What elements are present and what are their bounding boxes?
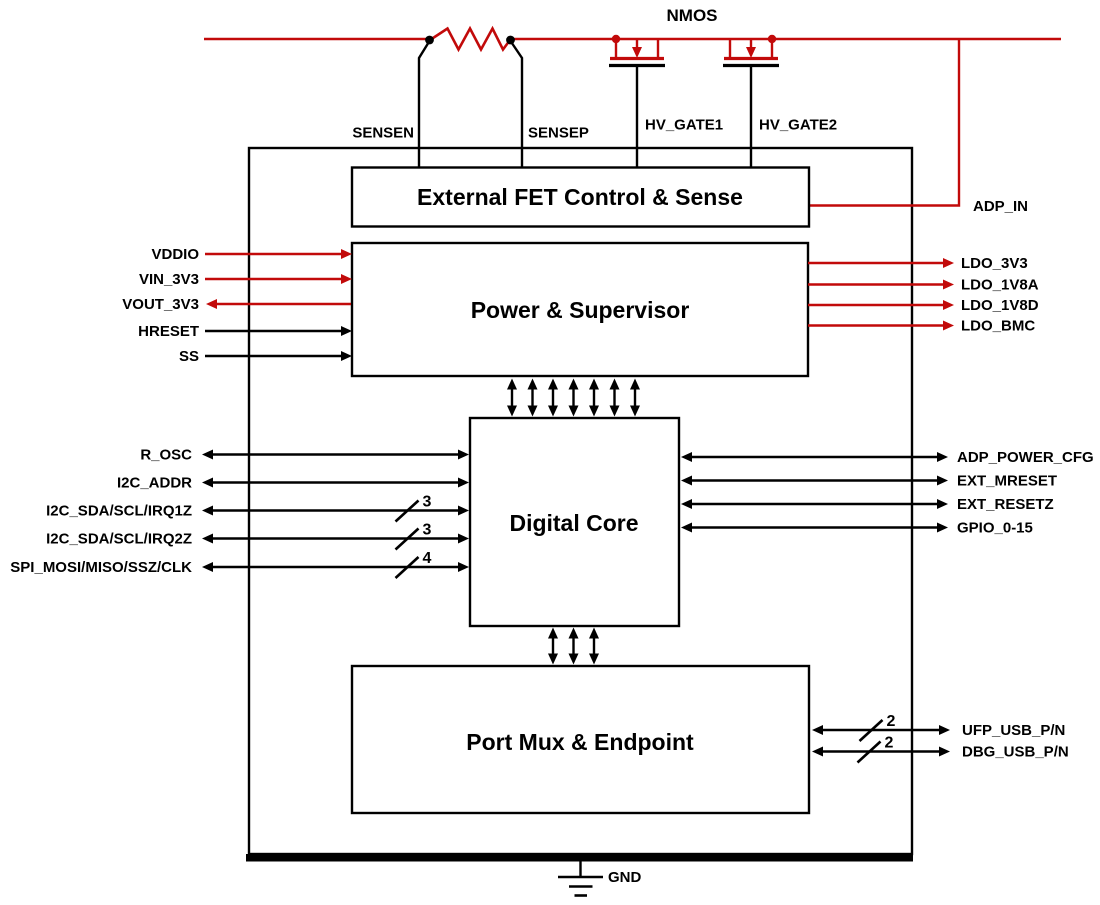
pin I2C_ADDR arrow <box>202 478 469 488</box>
svg-text:3: 3 <box>423 494 432 511</box>
bus arrow 2: Power & Supervisor ↔ Digital Core <box>528 379 538 417</box>
svg-text:LDO_1V8D: LDO_1V8D <box>961 297 1039 314</box>
svg-text:Power & Supervisor: Power & Supervisor <box>471 297 690 323</box>
pin LDO_3V3 arrow <box>808 258 954 268</box>
svg-text:LDO_1V8A: LDO_1V8A <box>961 277 1039 294</box>
bus width slash "3" on pin I2C_SDA/SCL/IRQ2Z arrow <box>396 522 432 550</box>
bus arrow 4: Power & Supervisor ↔ Digital Core <box>569 379 579 417</box>
pin HRESET arrow <box>205 326 352 336</box>
svg-text:SENSEN: SENSEN <box>352 125 414 142</box>
svg-text:HV_GATE1: HV_GATE1 <box>645 117 723 134</box>
bus arrow 7: Power & Supervisor ↔ Digital Core <box>630 379 640 417</box>
svg-text:ADP_POWER_CFG: ADP_POWER_CFG <box>957 449 1094 466</box>
svg-text:Port Mux & Endpoint: Port Mux & Endpoint <box>466 729 694 755</box>
wire HV_GATE1 (gate drive to Q1) <box>636 66 638 168</box>
pin GPIO_0-15 arrow <box>681 523 948 533</box>
wire HV_GATE2 (gate drive to Q2) <box>750 66 752 168</box>
svg-text:ADP_IN: ADP_IN <box>973 198 1028 215</box>
bus arrow 3: Power & Supervisor ↔ Digital Core <box>548 379 558 417</box>
svg-text:LDO_BMC: LDO_BMC <box>961 318 1035 335</box>
svg-text:SS: SS <box>179 348 199 365</box>
transistor Q1 (external NMOS pass FET) <box>609 35 665 66</box>
bus arrow 6: Power & Supervisor ↔ Digital Core <box>610 379 620 417</box>
svg-text:EXT_MRESET: EXT_MRESET <box>957 473 1057 490</box>
svg-text:I2C_ADDR: I2C_ADDR <box>117 475 192 492</box>
svg-text:UFP_USB_P/N: UFP_USB_P/N <box>962 722 1065 739</box>
block U1c: Digital Core <box>470 418 679 626</box>
pin EXT_RESETZ arrow <box>681 499 948 509</box>
ground bus (thick bottom edge of chip) <box>246 854 913 862</box>
bus arrow 1: Digital Core ↔ Port Mux & Endpoint <box>548 628 558 665</box>
pin SPI_MOSI/MISO/SSZ/CLK arrow <box>202 562 469 572</box>
block U1d: Port Mux & Endpoint <box>352 666 809 813</box>
svg-text:2: 2 <box>885 735 894 752</box>
ground symbol <box>558 860 603 896</box>
wire SENSEP (shunt positive sense line) <box>511 41 523 167</box>
resistor current-sense shunt <box>430 29 510 50</box>
wire VBUS power rail (right segment) <box>509 38 1061 40</box>
wire SENSEN (shunt negative sense line) <box>419 41 430 167</box>
svg-text:VDDIO: VDDIO <box>151 246 199 263</box>
pin I2C_SDA/SCL/IRQ2Z arrow <box>202 534 469 544</box>
pin VDDIO arrow <box>205 249 352 259</box>
svg-text:GPIO_0-15: GPIO_0-15 <box>957 520 1033 537</box>
transistor Q2 (external NMOS pass FET) <box>723 35 779 66</box>
bus width slash "2" on pin UFP_USB_P/N arrow <box>860 713 896 741</box>
bus arrow 2: Digital Core ↔ Port Mux & Endpoint <box>569 628 579 665</box>
pin UFP_USB_P/N arrow <box>812 725 950 735</box>
svg-text:VIN_3V3: VIN_3V3 <box>139 271 199 288</box>
pin EXT_MRESET arrow <box>681 476 948 486</box>
svg-text:2: 2 <box>887 713 896 730</box>
svg-text:External FET Control & Sense: External FET Control & Sense <box>417 184 743 210</box>
bus arrow 5: Power & Supervisor ↔ Digital Core <box>589 379 599 417</box>
pin VOUT_3V3 arrow <box>206 299 351 309</box>
svg-text:3: 3 <box>423 522 432 539</box>
svg-text:EXT_RESETZ: EXT_RESETZ <box>957 496 1054 513</box>
pin SS arrow <box>205 351 352 361</box>
node SENSEP junction <box>506 36 515 45</box>
pin R_OSC arrow <box>202 450 469 460</box>
svg-text:GND: GND <box>608 869 642 886</box>
bus width slash "4" on pin SPI_MOSI/MISO/SSZ/CLK arrow <box>396 550 432 578</box>
svg-text:SPI_MOSI/MISO/SSZ/CLK: SPI_MOSI/MISO/SSZ/CLK <box>10 559 192 576</box>
pin I2C_SDA/SCL/IRQ1Z arrow <box>202 506 469 516</box>
svg-text:VOUT_3V3: VOUT_3V3 <box>122 296 199 313</box>
pin VIN_3V3 arrow <box>205 274 352 284</box>
wire ADP_IN (adapter input feed from VBUS rail) <box>809 39 959 206</box>
bus arrow 1: Power & Supervisor ↔ Digital Core <box>507 379 517 417</box>
svg-text:4: 4 <box>423 550 432 567</box>
block U1a: External FET Control & Sense <box>352 168 809 227</box>
svg-text:HRESET: HRESET <box>138 323 199 340</box>
svg-text:Digital Core: Digital Core <box>509 510 638 536</box>
pin DBG_USB_P/N arrow <box>812 747 950 757</box>
svg-text:DBG_USB_P/N: DBG_USB_P/N <box>962 744 1069 761</box>
svg-text:NMOS: NMOS <box>667 6 718 25</box>
chip boundary (IC outline) <box>249 148 912 854</box>
bus width slash "3" on pin I2C_SDA/SCL/IRQ1Z arrow <box>396 494 432 522</box>
block U1b: Power & Supervisor <box>352 243 808 376</box>
svg-text:LDO_3V3: LDO_3V3 <box>961 255 1028 272</box>
pin LDO_BMC arrow <box>808 321 954 331</box>
node SENSEN junction <box>425 36 434 45</box>
svg-text:I2C_SDA/SCL/IRQ2Z: I2C_SDA/SCL/IRQ2Z <box>46 531 192 548</box>
wire VBUS power rail (left segment) <box>204 38 431 40</box>
pin LDO_1V8D arrow <box>808 300 954 310</box>
svg-text:SENSEP: SENSEP <box>528 125 589 142</box>
svg-text:I2C_SDA/SCL/IRQ1Z: I2C_SDA/SCL/IRQ1Z <box>46 503 192 520</box>
bus width slash "2" on pin DBG_USB_P/N arrow <box>858 735 894 763</box>
svg-text:HV_GATE2: HV_GATE2 <box>759 117 837 134</box>
bus arrow 3: Digital Core ↔ Port Mux & Endpoint <box>589 628 599 665</box>
svg-text:R_OSC: R_OSC <box>140 447 192 464</box>
pin LDO_1V8A arrow <box>808 280 954 290</box>
pin ADP_POWER_CFG arrow <box>681 452 948 462</box>
